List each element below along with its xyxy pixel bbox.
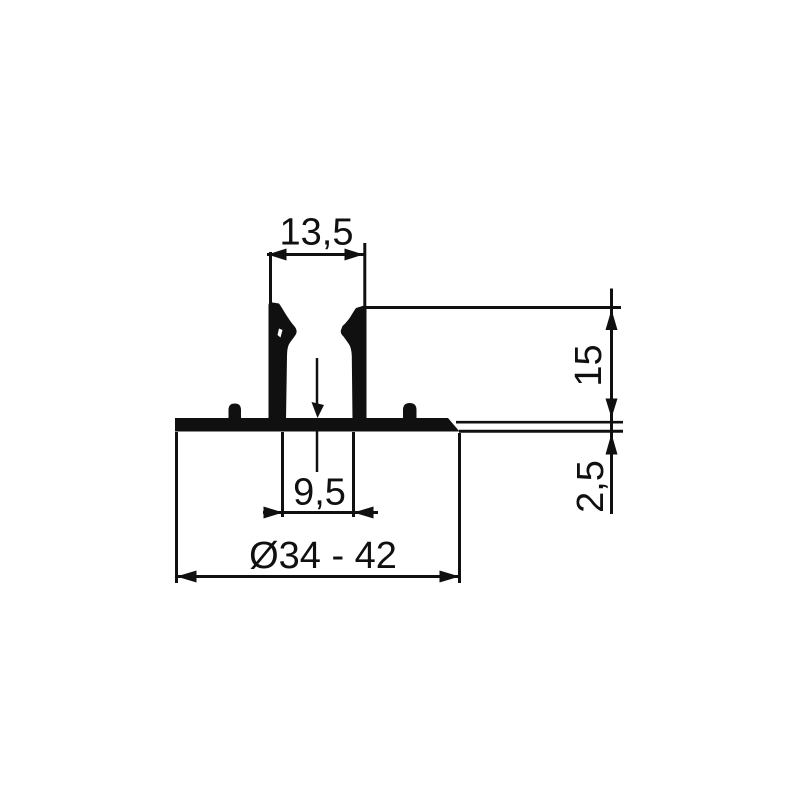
dimension 15 top arrow [606,310,618,331]
dimension 34-42 left extension line [175,432,178,583]
dimension 9,5 right arrow [354,507,374,519]
left sealing bump [229,404,242,421]
svg-text:15: 15 [568,344,610,386]
dimension 13,5 left extension line [269,252,272,305]
dimension 15 bottom arrow [606,399,618,419]
dimension 9,5 right extension line [352,432,355,517]
dimension 13,5 left arrow [268,249,287,261]
dimension 9,5 line [263,511,378,514]
flange bar [175,418,460,432]
dimension 13,5 right arrow [345,249,364,261]
dimension 34-42 right arrow [440,571,460,583]
center leader arrow [312,402,325,418]
center leader line lower [316,432,319,473]
dimension 9,5 left extension line [281,432,284,517]
right sealing bump [403,403,417,420]
svg-text:13,5: 13,5 [280,212,354,254]
vertical dimension line right [610,289,613,515]
dimension 2,5 arrow [606,434,618,455]
leader line from funnel top to 15 dimension [366,306,621,309]
svg-text:2,5: 2,5 [570,460,612,513]
dimension 34-42 line [176,575,460,578]
dimension 34-42 right extension line [458,433,461,583]
thin flange lip bottom line [459,430,623,433]
center leader line upper [316,358,319,404]
left wall white notch [278,329,283,338]
dimension 9,5 left arrow [264,507,284,519]
dimension 34-42 left arrow [177,571,197,583]
left tube wall [269,302,297,420]
svg-text:Ø34 - 42: Ø34 - 42 [249,535,397,577]
dimension 13,5 right extension line [363,243,366,308]
dimension 13,5 line [267,253,364,256]
thin flange lip top line [456,421,623,424]
right tube wall [341,306,367,420]
svg-text:9,5: 9,5 [293,472,346,514]
